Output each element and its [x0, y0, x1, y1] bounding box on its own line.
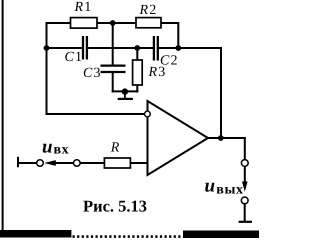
output terminal bar [239, 221, 252, 223]
svg-text:R3: R3 [148, 65, 167, 80]
bottom dotted divider [73, 235, 184, 238]
svg-text:C3: C3 [83, 66, 102, 81]
input terminal circle 2 [74, 160, 81, 167]
bottom black bar left [0, 230, 71, 238]
wire R2 right, corner down to C2 node [161, 23, 178, 48]
capacitor C1 [83, 36, 87, 60]
wire C1 to C2 [88, 47, 153, 49]
svg-text:вых: вых [216, 183, 243, 198]
node output junction [218, 135, 224, 141]
wire top-left corner to R1 [47, 22, 71, 24]
svg-text:R: R [110, 141, 121, 156]
svg-text:Рис. 5.13: Рис. 5.13 [83, 197, 147, 216]
wire output circle 2 to terminal [244, 204, 246, 222]
wire C2 to feedback corner [158, 48, 221, 138]
wire ground rail under C3 and R3 [113, 90, 138, 92]
wire left vertical from top corner to inverting input [46, 23, 48, 114]
svg-text:вх: вх [54, 143, 70, 158]
output circle 2 [241, 197, 248, 204]
wire node A vertical R1R2 junction down to C3 [112, 23, 114, 65]
resistor R [104, 158, 130, 168]
svg-text:C1: C1 [65, 50, 84, 65]
output arrow uvyh [242, 182, 248, 192]
wire output down to first output circle [244, 138, 246, 160]
node R3 top junction [134, 45, 140, 51]
input terminal circle 1 [37, 160, 44, 167]
op-amp U1 [148, 101, 209, 175]
wire R3 top [136, 48, 138, 60]
wire second circle to R [80, 162, 104, 164]
wire C3 bottom to ground rail [112, 72, 114, 91]
node left C1 junction [44, 45, 50, 51]
svg-text:u: u [42, 137, 53, 158]
capacitor C3 [101, 66, 126, 72]
wire between output circles [244, 167, 246, 183]
resistor R1 [71, 18, 98, 29]
input terminal bar [17, 157, 19, 167]
resistor R2 [136, 18, 161, 28]
resistor R3 [133, 60, 143, 85]
bottom black bar right [183, 231, 259, 239]
wire R3 bottom [136, 85, 138, 91]
inversion circle at op-amp input [145, 111, 151, 117]
node C2 R2 feedback junction [175, 45, 181, 51]
wire op-amp output [208, 137, 245, 139]
wire arrow tail to second circle [55, 162, 73, 164]
output circle 1 [241, 160, 248, 167]
wire R1 to R2 [97, 22, 136, 24]
wire C1 line left [47, 47, 82, 49]
svg-text:R2: R2 [139, 3, 158, 18]
node R1R2 junction [110, 20, 116, 26]
page border left line [2, 0, 4, 231]
svg-text:R1: R1 [74, 0, 93, 15]
capacitor C2 [154, 36, 158, 61]
ground [118, 92, 133, 99]
wire inverting input horizontal [47, 113, 145, 115]
wire input terminal to first circle [18, 162, 37, 164]
wire noninverting input from R to op-amp [131, 162, 148, 164]
node ground junction [122, 88, 128, 94]
svg-text:u: u [205, 176, 216, 197]
input arrow uvx [44, 160, 56, 166]
